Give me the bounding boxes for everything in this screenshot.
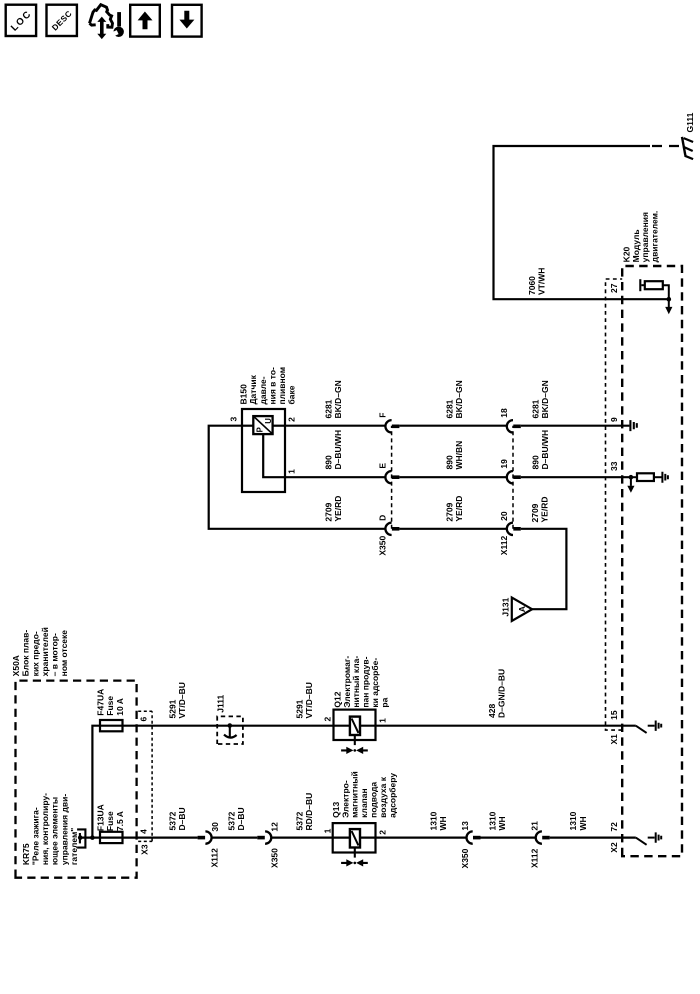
svg-text:пливном: пливном bbox=[277, 367, 287, 405]
wire fuse feed link bbox=[92, 726, 100, 838]
wire 2709 YE/RD X112-20 to splice J131 bbox=[521, 529, 567, 609]
svg-text:27: 27 bbox=[609, 283, 619, 293]
wire 5291 VT/D-BU from X3 pin 6 to J111 bbox=[152, 725, 230, 727]
solenoid valve Q12 box bbox=[322, 656, 389, 754]
svg-text:A: A bbox=[517, 606, 527, 612]
connector X350 dashed link line bbox=[391, 426, 393, 529]
ground G111 earth symbol bbox=[682, 137, 693, 159]
wire 6281 BK/D-GN from pin 2 bbox=[285, 425, 385, 427]
wire 2709 YE/RD X350-D to X112-20 bbox=[399, 528, 506, 530]
svg-text:1: 1 bbox=[378, 718, 388, 723]
svg-text:WH: WH bbox=[438, 816, 448, 830]
svg-text:F: F bbox=[378, 412, 388, 417]
svg-text:D–BU/WH: D–BU/WH bbox=[540, 430, 550, 470]
svg-text:VT/D–BU: VT/D–BU bbox=[177, 682, 187, 718]
connector X1 dotted bracket bbox=[606, 279, 623, 730]
svg-text:BK/D–GN: BK/D–GN bbox=[540, 380, 550, 418]
inline connector X112 pin 19 bbox=[499, 459, 521, 484]
B150 transducer square P/U bbox=[253, 416, 273, 434]
svg-text:давле-: давле- bbox=[258, 376, 268, 404]
svg-text:10 A: 10 A bbox=[115, 698, 125, 716]
wire 5372 RD/D-BU from X350-12 to Q13 bbox=[271, 836, 332, 838]
svg-text:J131: J131 bbox=[501, 597, 511, 616]
B150 pin2 wire inside box bbox=[273, 425, 285, 427]
svg-text:X350: X350 bbox=[269, 848, 279, 868]
svg-text:ния в то-: ния в то- bbox=[267, 367, 277, 405]
B150 internal pin1 tap wire bbox=[263, 434, 285, 477]
pin 27 internal driver with pull-up resistor bbox=[622, 279, 672, 314]
wire 890 D-BU/WH from pin 1 bbox=[285, 476, 385, 478]
svg-text:20: 20 bbox=[499, 511, 509, 521]
svg-text:BK/D–GN: BK/D–GN bbox=[333, 380, 343, 418]
fuel tank pressure sensor B150 box bbox=[242, 409, 285, 492]
svg-text:F47UA: F47UA bbox=[96, 689, 106, 716]
inline connector X112 pin 21 (female above, male below) bbox=[529, 821, 549, 868]
wire 890 WH/BN X112-19 to ECM pin 33 bbox=[521, 476, 631, 478]
Q13 valve stem and bowtie bbox=[354, 848, 356, 858]
connector X112 dashed link line bbox=[512, 426, 514, 529]
wire 428 D-GN/D-BU from Q12 to ECM X1 pin 15 bbox=[376, 725, 636, 727]
wire 5372 D-BU from X112-30 to X350-12 bbox=[212, 836, 258, 838]
splice joint J111 dashed box bbox=[215, 694, 243, 744]
inline connector X350 pin D bbox=[378, 515, 400, 535]
wire 1310 WH from Q13 to X350-13 bbox=[376, 836, 467, 838]
svg-text:D–BU: D–BU bbox=[236, 807, 246, 830]
svg-text:Блок плав-: Блок плав- bbox=[21, 630, 31, 677]
wire 1310 WH from X350-13 to X112-21 bbox=[481, 836, 536, 838]
svg-text:890: 890 bbox=[530, 455, 540, 469]
svg-text:X2: X2 bbox=[609, 842, 619, 853]
fuse block X50A dashed box bbox=[16, 681, 137, 878]
wire 6281 BK/D-GN X112-18 to ECM pin 9 bbox=[521, 425, 630, 427]
svg-text:19: 19 bbox=[499, 459, 509, 469]
svg-text:D–BU/WH: D–BU/WH bbox=[333, 430, 343, 470]
pin 33 internal pull-down resistor to ground with signal arrow bbox=[627, 472, 668, 493]
wire 890 WH/BN X350-E to X112-19 bbox=[399, 476, 506, 478]
svg-text:5291: 5291 bbox=[167, 699, 177, 718]
svg-text:Датчик: Датчик bbox=[248, 374, 258, 404]
svg-text:ном отсеке: ном отсеке bbox=[59, 630, 69, 677]
junction node fuse feed bbox=[90, 835, 95, 840]
icon shift-adjust (outline arrow, double arrow, wrench) bbox=[90, 5, 124, 39]
svg-text:ющее элементы: ющее элементы bbox=[50, 797, 60, 865]
ECM K20 dashed box bbox=[622, 266, 682, 856]
wire 5291 VT/D-BU from J111 to Q12 bbox=[230, 725, 334, 727]
svg-text:B150: B150 bbox=[239, 384, 249, 405]
svg-text:ких предо-: ких предо- bbox=[30, 631, 40, 676]
svg-text:BK/D–GN: BK/D–GN bbox=[454, 380, 464, 418]
svg-text:X350: X350 bbox=[378, 536, 388, 556]
svg-text:21: 21 bbox=[529, 821, 539, 831]
svg-text:D–GN/D–BU: D–GN/D–BU bbox=[497, 669, 507, 718]
svg-text:2: 2 bbox=[322, 717, 332, 722]
svg-text:P: P bbox=[255, 427, 264, 432]
svg-text:WH: WH bbox=[497, 816, 507, 830]
Q13 coil symbol bbox=[350, 829, 360, 847]
inline connector X112 pin 30 (male above, female below) bbox=[198, 822, 221, 868]
svg-text:"Реле зажига-: "Реле зажига- bbox=[31, 807, 41, 865]
svg-text:4: 4 bbox=[138, 829, 148, 834]
svg-text:6281: 6281 bbox=[530, 399, 540, 418]
svg-text:30: 30 bbox=[210, 822, 220, 832]
svg-text:1: 1 bbox=[286, 469, 296, 474]
svg-text:адсорберу: адсорберу bbox=[387, 773, 397, 818]
splice J131 triangle bbox=[501, 597, 532, 621]
svg-text:3: 3 bbox=[228, 417, 238, 422]
svg-text:6: 6 bbox=[138, 717, 148, 722]
svg-text:X350: X350 bbox=[460, 848, 470, 868]
inline connector X112 pin 20 bbox=[499, 511, 521, 535]
svg-text:E: E bbox=[378, 463, 388, 469]
svg-text:890: 890 bbox=[444, 455, 454, 469]
inline connector X112 pin 18 bbox=[499, 408, 521, 433]
wire 7060 VT/WH from pin 27 to G111 bbox=[494, 146, 651, 299]
svg-text:X112: X112 bbox=[499, 536, 509, 556]
svg-text:13: 13 bbox=[460, 821, 470, 831]
pin 9 internal chassis ground bbox=[630, 420, 636, 431]
svg-text:6281: 6281 bbox=[323, 399, 333, 418]
relay KR75 contact bracket bbox=[77, 828, 85, 848]
svg-text:YE/RD: YE/RD bbox=[454, 496, 464, 522]
inline connector X350 pin 13 (female above, male below) bbox=[460, 821, 481, 869]
inline connector X350 pin 12 (male above, female below) bbox=[257, 822, 279, 868]
svg-text:890: 890 bbox=[323, 455, 333, 469]
svg-text:6281: 6281 bbox=[444, 399, 454, 418]
svg-text:– в мотор-: – в мотор- bbox=[50, 633, 60, 676]
svg-text:ния, контролиру-: ния, контролиру- bbox=[40, 793, 50, 865]
svg-text:Fuse: Fuse bbox=[105, 811, 115, 831]
svg-text:18: 18 bbox=[499, 408, 509, 418]
solenoid valve Q13 box bbox=[322, 771, 397, 866]
svg-text:ра: ра bbox=[379, 697, 389, 707]
svg-text:YE/RD: YE/RD bbox=[540, 497, 550, 523]
button LOC bbox=[6, 5, 36, 36]
svg-text:LOC: LOC bbox=[9, 9, 34, 34]
wire dashed segment to G111 bbox=[652, 145, 681, 147]
fuse F47UA bbox=[100, 725, 152, 727]
svg-text:управления дви-: управления дви- bbox=[59, 794, 69, 865]
pin 15 internal switch to ground bbox=[636, 721, 661, 733]
svg-text:1310: 1310 bbox=[568, 811, 578, 830]
svg-text:5372: 5372 bbox=[167, 811, 177, 830]
svg-text:1310: 1310 bbox=[428, 811, 438, 830]
svg-text:F13UA: F13UA bbox=[96, 804, 106, 831]
svg-text:баке: баке bbox=[287, 385, 297, 404]
fuse F13UA bbox=[100, 836, 152, 838]
svg-text:428: 428 bbox=[487, 704, 497, 718]
svg-text:RD/D–BU: RD/D–BU bbox=[304, 793, 314, 831]
B150 pin3 wire inside box bbox=[242, 425, 253, 427]
svg-text:WH: WH bbox=[578, 816, 588, 830]
svg-text:U: U bbox=[264, 418, 273, 424]
svg-text:72: 72 bbox=[609, 822, 619, 832]
svg-text:D: D bbox=[378, 515, 388, 521]
svg-text:гателем": гателем" bbox=[69, 828, 79, 865]
svg-text:2: 2 bbox=[286, 417, 296, 422]
relay KR75 contact bar and junction dot bbox=[79, 833, 81, 843]
svg-text:7.5 A: 7.5 A bbox=[115, 811, 125, 831]
inline connector X350 pin E bbox=[378, 463, 400, 484]
button page-down arrow bbox=[172, 5, 202, 37]
svg-text:D–BU: D–BU bbox=[177, 807, 187, 830]
connector X3 dotted bracket bbox=[138, 711, 152, 841]
wire 1310 WH from X112-21 to ECM X2 pin 72 bbox=[550, 836, 636, 838]
svg-text:5372: 5372 bbox=[226, 811, 236, 830]
wire relay output down to junction bbox=[80, 836, 100, 838]
Q12 valve stem and bowtie bbox=[354, 735, 356, 745]
svg-text:12: 12 bbox=[269, 822, 279, 832]
svg-text:хранителей: хранителей bbox=[40, 627, 50, 676]
svg-text:YE/RD: YE/RD bbox=[333, 496, 343, 522]
pin 72 internal switch to ground bbox=[636, 832, 661, 844]
svg-text:двигателем.: двигателем. bbox=[650, 211, 660, 263]
wire 6281 BK/D-GN X350-F to X112-18 bbox=[399, 425, 506, 427]
svg-text:VT/D–BU: VT/D–BU bbox=[304, 682, 314, 718]
svg-text:1310: 1310 bbox=[488, 811, 498, 830]
svg-text:X1: X1 bbox=[609, 734, 619, 745]
svg-text:KR75: KR75 bbox=[21, 843, 31, 865]
svg-text:9: 9 bbox=[609, 417, 619, 422]
svg-text:5372: 5372 bbox=[294, 811, 304, 830]
button page-up arrow bbox=[130, 5, 160, 37]
inline connector X350 pin F bbox=[378, 412, 400, 432]
svg-text:7060: 7060 bbox=[527, 276, 537, 295]
svg-text:DESC: DESC bbox=[50, 9, 74, 33]
svg-text:X50A: X50A bbox=[11, 655, 21, 676]
button DESC bbox=[47, 5, 77, 36]
svg-text:2709: 2709 bbox=[323, 502, 333, 521]
svg-text:X3: X3 bbox=[140, 844, 150, 855]
svg-text:J111: J111 bbox=[215, 694, 225, 712]
svg-text:2: 2 bbox=[378, 830, 388, 835]
svg-text:WH/BN: WH/BN bbox=[454, 441, 464, 470]
svg-text:33: 33 bbox=[609, 461, 619, 471]
svg-text:1: 1 bbox=[322, 828, 332, 833]
svg-text:VT/WH: VT/WH bbox=[537, 268, 547, 295]
svg-text:15: 15 bbox=[609, 710, 619, 720]
wire 5372 D-BU from X3 pin 4 to connector X112-30 bbox=[152, 836, 198, 838]
svg-text:X112: X112 bbox=[210, 848, 220, 868]
svg-text:2709: 2709 bbox=[444, 502, 454, 521]
svg-text:X112: X112 bbox=[529, 848, 539, 868]
svg-text:Fuse: Fuse bbox=[105, 696, 115, 716]
svg-text:5291: 5291 bbox=[294, 699, 304, 718]
svg-text:G111: G111 bbox=[685, 112, 695, 132]
svg-text:2709: 2709 bbox=[530, 503, 540, 522]
wire 5V reference loop from pin 3 bbox=[209, 426, 386, 529]
Q12 coil symbol bbox=[350, 717, 360, 735]
